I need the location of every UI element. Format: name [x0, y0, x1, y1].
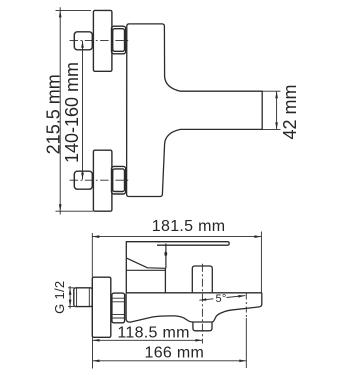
arrow 118.5 left	[93, 339, 100, 342]
svg-text:140-160 mm: 140-160 mm	[62, 62, 82, 163]
dim 215.5 line	[59, 7, 61, 214]
arrow 5deg right	[238, 295, 245, 298]
lower eccentric square	[74, 171, 92, 189]
lever base right edge	[165, 244, 167, 269]
arrow 166 right	[239, 359, 246, 362]
lower centerline	[70, 179, 131, 181]
arrow 42 bottom	[275, 122, 278, 129]
166 right extension (dashed upper)	[245, 294, 247, 319]
lower escutcheon plate	[93, 150, 112, 211]
pivot dot	[164, 252, 167, 257]
lower hex nut	[112, 166, 126, 194]
side escutcheon plate	[92, 277, 111, 337]
faucet body side view	[126, 242, 160, 293]
lever base slant	[126, 258, 166, 268]
arrow 215.5 bottom	[59, 204, 62, 211]
arrow 166 left	[93, 359, 100, 362]
spout top line	[126, 292, 261, 294]
svg-text:166 mm: 166 mm	[145, 345, 205, 362]
faucet body front view	[127, 24, 263, 197]
upper eccentric square	[74, 32, 92, 50]
connector centerline	[201, 264, 203, 344]
svg-text:42 mm: 42 mm	[280, 84, 300, 139]
dim 181.5 line	[92, 236, 261, 238]
side hex nut	[112, 293, 125, 323]
dim 140-160 line	[82, 41, 84, 180]
spout left edge and underside	[126, 293, 262, 322]
upper escutcheon plate	[93, 10, 112, 71]
arrow G1/2 bottom	[69, 300, 72, 307]
dim 166 line	[93, 360, 247, 362]
wall extension line	[92, 338, 94, 369]
svg-text:5°: 5°	[216, 293, 227, 305]
arrow 140-160 top	[81, 41, 84, 48]
dim 42 line	[276, 91, 278, 129]
aerator nub	[193, 322, 212, 331]
arrow 42 top	[275, 91, 278, 98]
arrow 118.5 right	[195, 339, 202, 342]
svg-text:181.5 mm: 181.5 mm	[152, 218, 226, 235]
G1/2 threaded stub	[74, 288, 93, 307]
diverter connector on spout	[192, 266, 212, 293]
arrow G1/2 top	[69, 288, 72, 295]
arrowheads	[59, 10, 278, 362]
dim 118.5 line	[93, 339, 203, 341]
dim 181.5 extension lines	[91, 233, 93, 277]
arrow 140-160 bottom	[81, 173, 84, 180]
arrow 181.5 right	[254, 235, 261, 238]
body right edge	[164, 268, 166, 293]
dimension texts	[44, 62, 301, 362]
arrow 5deg left	[199, 298, 206, 301]
cartridge parting line	[126, 269, 165, 271]
upper hex nut	[112, 26, 126, 54]
dim 42 extension lines	[262, 91, 280, 129]
svg-text:118.5 mm: 118.5 mm	[117, 325, 189, 342]
arrow 181.5 left	[92, 235, 99, 238]
svg-text:G 1/2: G 1/2	[52, 281, 67, 314]
G1/2 dim	[69, 286, 71, 309]
dim 215.5 extension lines	[56, 9, 92, 11]
arrow 215.5 top	[59, 10, 62, 17]
5 deg dim line	[199, 296, 245, 301]
svg-text:215.5 mm: 215.5 mm	[44, 74, 64, 154]
lever handle bar	[157, 242, 229, 246]
upper centerline	[70, 40, 131, 42]
